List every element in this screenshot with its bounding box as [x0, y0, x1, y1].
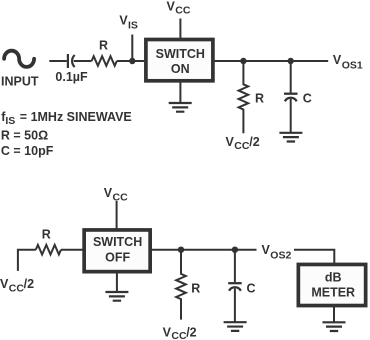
svg-text:V: V [226, 135, 235, 149]
svg-text:CC: CC [9, 282, 25, 294]
svg-text:IS: IS [5, 115, 15, 127]
svg-text:/2: /2 [249, 135, 259, 149]
svg-text:/2: /2 [186, 325, 196, 339]
svg-text:0.1µF: 0.1µF [55, 70, 88, 84]
svg-text:R: R [42, 227, 51, 241]
svg-text:CC: CC [234, 140, 250, 152]
svg-text:METER: METER [311, 286, 355, 300]
svg-text:CC: CC [175, 4, 191, 16]
svg-text:ON: ON [171, 62, 190, 76]
svg-text:dB: dB [325, 271, 342, 285]
svg-text:V: V [0, 277, 9, 291]
svg-text:IS: IS [128, 19, 138, 31]
svg-text:/2: /2 [24, 277, 34, 291]
svg-text:CC: CC [171, 330, 187, 340]
svg-text:V: V [104, 186, 113, 200]
svg-text:V: V [163, 325, 172, 339]
svg-text:OS1: OS1 [342, 60, 363, 72]
svg-text:SWITCH: SWITCH [156, 47, 205, 61]
svg-text:SWITCH: SWITCH [93, 235, 142, 249]
svg-text:R = 50Ω: R = 50Ω [1, 129, 48, 143]
svg-text:OS2: OS2 [270, 249, 291, 261]
svg-text:INPUT: INPUT [1, 75, 39, 89]
svg-text:V: V [167, 0, 176, 13]
svg-text:C: C [303, 92, 312, 106]
svg-text:C: C [247, 281, 256, 295]
svg-text:C = 10pF: C = 10pF [1, 144, 54, 158]
svg-text:R: R [99, 39, 108, 53]
svg-text:= 1MHz SINEWAVE: = 1MHz SINEWAVE [20, 110, 132, 124]
svg-text:V: V [262, 243, 271, 257]
svg-text:OFF: OFF [105, 250, 130, 264]
svg-text:V: V [333, 53, 342, 67]
svg-text:R: R [255, 92, 264, 106]
svg-text:CC: CC [113, 191, 129, 203]
svg-text:R: R [191, 281, 200, 295]
